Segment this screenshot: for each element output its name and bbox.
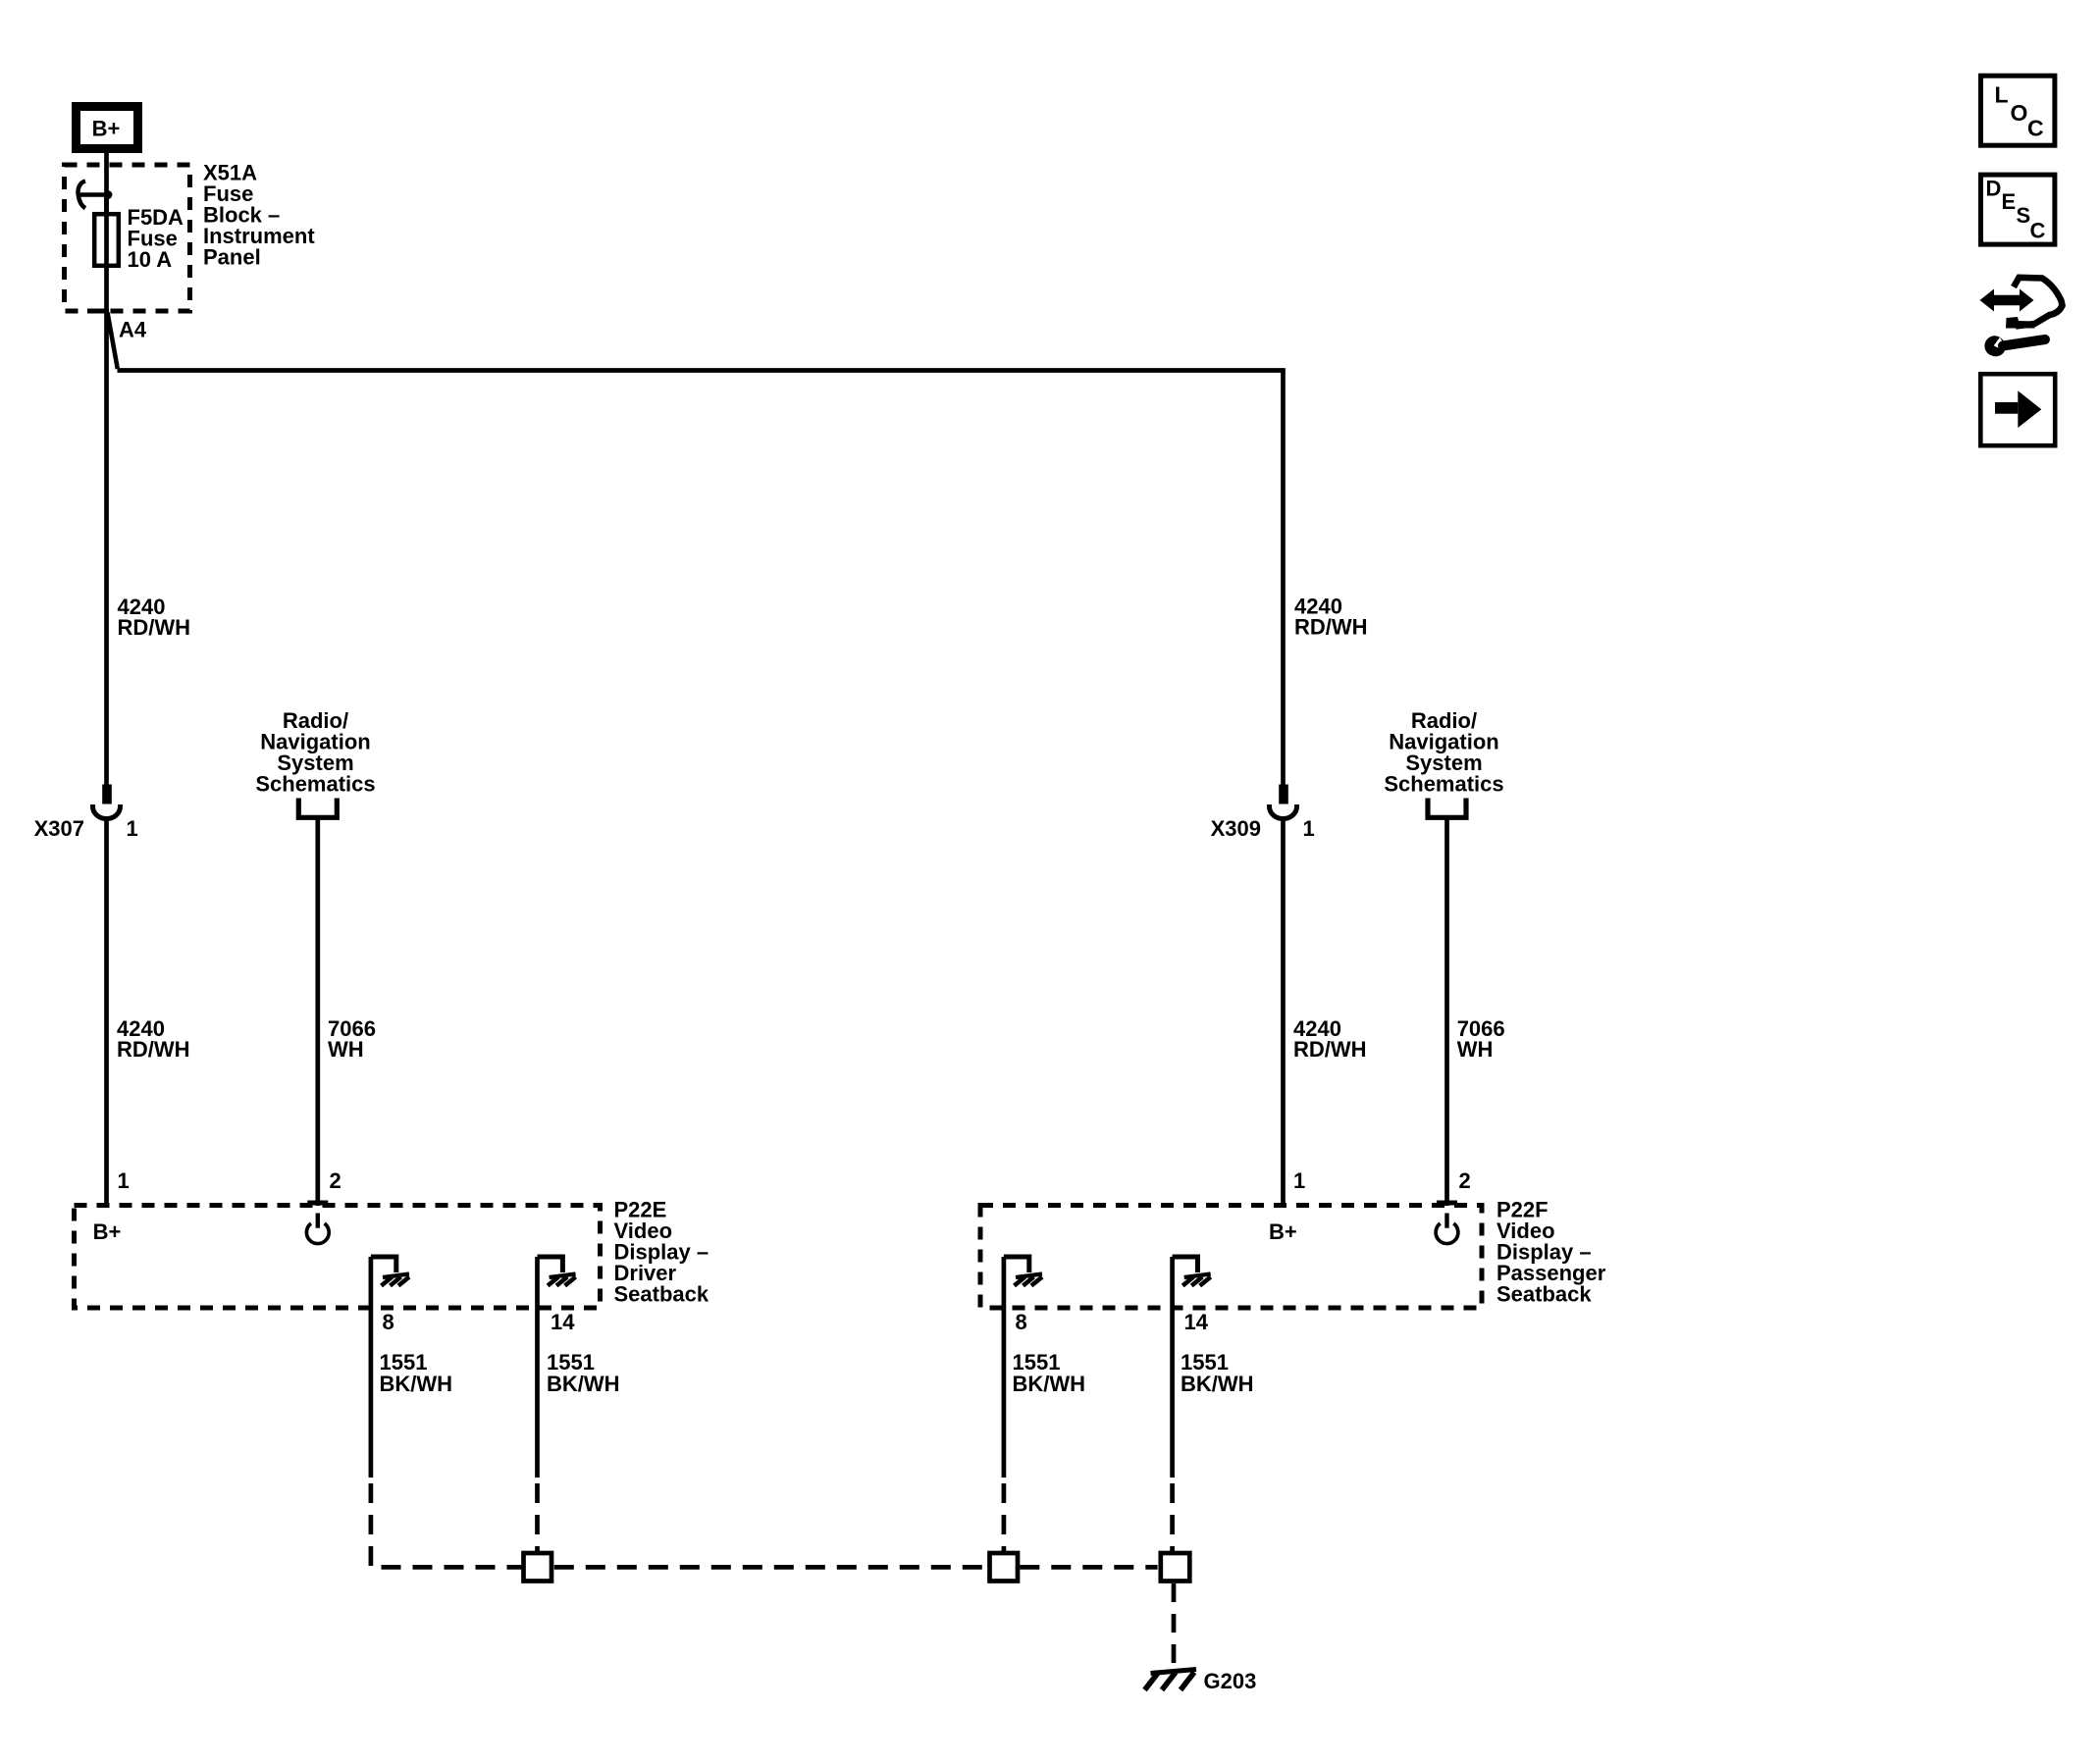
wire label 1551 BK/WH (P22E pin8) xyxy=(380,1350,453,1396)
icon DESC box xyxy=(1981,175,2055,244)
svg-text:Schematics: Schematics xyxy=(255,772,375,797)
svg-text:RD/WH: RD/WH xyxy=(1294,615,1368,640)
svg-text:BK/WH: BK/WH xyxy=(547,1372,620,1396)
icon diagnostic arrows and wrench xyxy=(1980,278,2063,356)
svg-text:RD/WH: RD/WH xyxy=(118,615,191,640)
wire label 4240 RD/WH lower left xyxy=(117,1016,190,1062)
svg-text:RD/WH: RD/WH xyxy=(1293,1037,1367,1062)
wire through fuse down to connector X307 xyxy=(104,195,109,787)
svg-text:E: E xyxy=(2002,189,2017,214)
svg-text:RD/WH: RD/WH xyxy=(117,1037,190,1062)
svg-text:D: D xyxy=(1986,177,2002,201)
svg-text:Panel: Panel xyxy=(203,245,261,270)
fuse clip terminal xyxy=(79,182,113,209)
svg-text:2: 2 xyxy=(330,1168,341,1193)
svg-text:X307: X307 xyxy=(34,816,84,841)
wire label 4240 RD/WH lower right xyxy=(1293,1016,1367,1062)
ground wire P22E pin8 solid xyxy=(369,1257,374,1478)
fuse block label X51A xyxy=(203,161,315,270)
svg-text:1: 1 xyxy=(1293,1168,1305,1193)
svg-text:Schematics: Schematics xyxy=(1384,772,1503,797)
P22E pin2 terminal tick xyxy=(307,1201,328,1206)
wire label 1551 BK/WH (P22F pin14) xyxy=(1181,1350,1254,1396)
svg-text:B+: B+ xyxy=(92,117,121,141)
diagonal wire branch xyxy=(108,313,118,370)
P22E power symbol xyxy=(306,1214,329,1244)
splice junction S2 xyxy=(990,1553,1019,1582)
svg-text:B+: B+ xyxy=(93,1219,122,1244)
wire label 7066 WH (right) xyxy=(1457,1016,1505,1062)
ground G203 xyxy=(1145,1669,1257,1693)
P22E internal ground pin 14 xyxy=(538,1257,576,1286)
wire label 4240 RD/WH upper left xyxy=(118,595,191,640)
svg-text:1: 1 xyxy=(127,816,138,841)
svg-text:WH: WH xyxy=(328,1037,364,1062)
P22F video display dashed box xyxy=(980,1206,1482,1309)
horizontal feed wire to right branch xyxy=(118,371,1284,787)
splice junction S3 xyxy=(1161,1553,1190,1582)
icon next-page arrow box xyxy=(1980,374,2055,445)
ground wire P22F pin8 dashed xyxy=(1002,1478,1007,1551)
svg-text:B+: B+ xyxy=(1269,1219,1297,1244)
fuse F5DA 10A xyxy=(94,214,119,266)
P22E label xyxy=(614,1198,709,1307)
wire off-page to P22F pin2 xyxy=(1444,817,1449,1206)
wire label 1551 BK/WH (P22E pin14) xyxy=(547,1350,620,1396)
P22E internal ground pin 8 xyxy=(371,1257,409,1286)
P22F internal ground pin 14 xyxy=(1173,1257,1211,1286)
svg-text:O: O xyxy=(2011,100,2028,126)
svg-text:1: 1 xyxy=(118,1168,130,1193)
svg-text:Seatback: Seatback xyxy=(614,1282,709,1307)
connector X309 xyxy=(1211,785,1315,842)
wire off-page to P22E pin2 xyxy=(315,817,320,1206)
svg-text:14: 14 xyxy=(551,1310,575,1334)
connector X307 xyxy=(34,785,138,842)
svg-text:8: 8 xyxy=(383,1310,394,1334)
wire X307 to P22E pin1 xyxy=(104,817,109,1206)
wire label 1551 BK/WH (P22F pin8) xyxy=(1013,1350,1086,1396)
off-page reference Radio/Navigation (left) xyxy=(255,708,375,817)
fuse block X51A dashed box xyxy=(65,165,190,311)
svg-text:C: C xyxy=(2030,219,2046,243)
svg-text:8: 8 xyxy=(1016,1310,1027,1334)
svg-text:Seatback: Seatback xyxy=(1496,1282,1592,1307)
ground wire P22F pin14 solid xyxy=(1170,1257,1175,1478)
power feed B+ box xyxy=(77,107,138,149)
wire from B+ to fuse xyxy=(104,150,109,214)
svg-text:14: 14 xyxy=(1184,1310,1209,1334)
svg-text:X309: X309 xyxy=(1211,816,1261,841)
P22E video display dashed box xyxy=(75,1206,601,1309)
dashed wire splice S3 to ground G203 xyxy=(1172,1583,1177,1667)
fuse value label F5DA Fuse 10 A xyxy=(128,205,184,272)
ground wire P22F pin8 solid xyxy=(1002,1257,1007,1478)
svg-text:S: S xyxy=(2017,203,2031,228)
svg-text:C: C xyxy=(2027,116,2044,141)
off-page reference Radio/Navigation (right) xyxy=(1384,708,1503,817)
svg-text:WH: WH xyxy=(1457,1037,1494,1062)
ground wire P22E pin8 dashed elbow xyxy=(371,1478,522,1567)
wire label 4240 RD/WH upper right xyxy=(1294,595,1368,640)
terminal A4 tick xyxy=(87,309,147,342)
svg-text:BK/WH: BK/WH xyxy=(1181,1372,1254,1396)
P22F internal ground pin 8 xyxy=(1004,1257,1042,1286)
splice junction S1 xyxy=(524,1553,552,1582)
svg-text:BK/WH: BK/WH xyxy=(1013,1372,1086,1396)
ground wire P22F pin14 dashed xyxy=(1170,1478,1175,1551)
svg-text:1: 1 xyxy=(1303,816,1315,841)
ground wire P22E pin14 solid xyxy=(535,1257,540,1478)
wire X309 to P22F pin1 xyxy=(1281,817,1286,1206)
icon LOC box xyxy=(1981,76,2055,145)
dashed ground bus wire xyxy=(554,1565,1158,1570)
wire label 7066 WH (left) xyxy=(328,1016,376,1062)
P22F pin2 terminal tick xyxy=(1437,1201,1457,1206)
svg-text:A4: A4 xyxy=(119,318,147,342)
ground wire P22E pin14 dashed xyxy=(535,1478,540,1551)
svg-text:L: L xyxy=(1995,82,2009,108)
P22F power symbol xyxy=(1436,1214,1458,1244)
svg-text:2: 2 xyxy=(1459,1168,1471,1193)
P22F label xyxy=(1496,1198,1606,1307)
svg-text:BK/WH: BK/WH xyxy=(380,1372,453,1396)
svg-text:G203: G203 xyxy=(1204,1669,1257,1693)
svg-text:10 A: 10 A xyxy=(128,247,173,272)
